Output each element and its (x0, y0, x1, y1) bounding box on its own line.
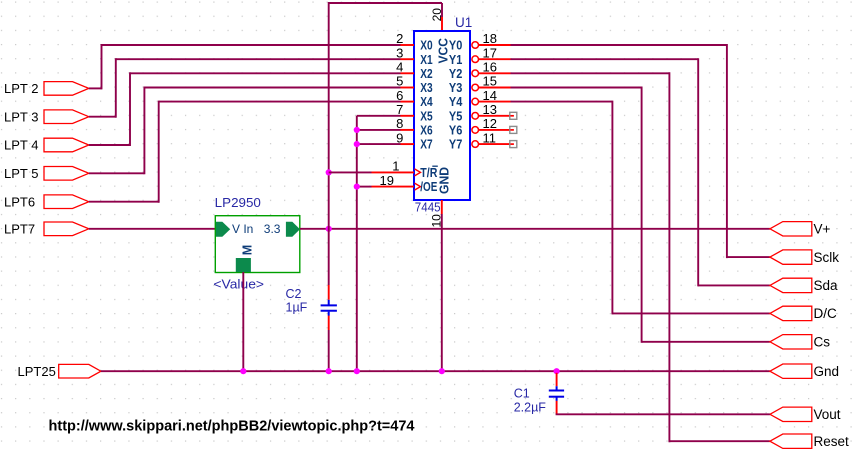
junction 3.3V rail / C2 (326, 226, 332, 232)
wire 3.3V rail (300, 228, 770, 230)
svg-text:/OE: /OE (420, 179, 437, 194)
pin number 11 (483, 130, 497, 145)
junction pin10 gnd (439, 368, 445, 374)
svg-text:18: 18 (483, 31, 497, 46)
pin 15 lead (479, 87, 511, 89)
pin number 8 (396, 116, 403, 131)
connector D/C (770, 306, 837, 321)
wire regulator ground to rail (242, 272, 244, 371)
svg-text:LPT25: LPT25 (18, 364, 56, 379)
pin number 3 (396, 45, 403, 60)
connector V+ (770, 222, 831, 237)
pin label Y4 (449, 94, 463, 109)
pin number 7 (396, 102, 403, 117)
connector Reset (770, 434, 849, 449)
svg-text:3: 3 (396, 45, 403, 60)
junction regulator gnd (240, 368, 246, 374)
svg-text:11: 11 (483, 130, 497, 145)
wire Y4 to D/C (511, 101, 770, 315)
pin label X7 (420, 137, 432, 152)
pin label X1 (420, 52, 432, 67)
svg-text:C1: C1 (514, 386, 530, 400)
pin label Y7 (449, 137, 462, 152)
capacitor C2 label (286, 287, 302, 301)
junction pin19 (354, 184, 360, 190)
junction pin9 (354, 141, 360, 147)
junction pin8 (354, 127, 360, 133)
pin label X0 (420, 38, 432, 53)
no-connect marker pin 12 (510, 126, 517, 133)
svg-text:Sda: Sda (814, 278, 839, 293)
wire pin1 T/R (329, 171, 372, 173)
svg-text:LPT 4: LPT 4 (4, 138, 38, 153)
pin label Y2 (449, 66, 462, 81)
svg-text:LPT 3: LPT 3 (4, 109, 38, 124)
pin number 20 (430, 8, 444, 22)
pin 6 lead (401, 101, 415, 103)
svg-text:X2: X2 (420, 66, 432, 81)
svg-text:X4: X4 (420, 94, 433, 109)
connector LPT7 (4, 221, 89, 236)
svg-text:1µF: 1µF (286, 301, 308, 315)
pin 12 bubble (472, 127, 479, 134)
pin number 4 (396, 60, 403, 75)
pin 8 lead (401, 129, 415, 131)
svg-text:Y2: Y2 (449, 66, 462, 81)
capacitor C2 plates (321, 300, 337, 316)
svg-text:4: 4 (396, 60, 403, 75)
pin 19 lead /OE (372, 183, 421, 190)
capacitor C1 plates (549, 386, 564, 401)
junction C1 gnd (554, 368, 560, 374)
svg-text:Y6: Y6 (449, 123, 462, 138)
pin 15 bubble (472, 84, 479, 91)
svg-text:V In: V In (232, 222, 253, 236)
pin 17 bubble (472, 56, 479, 63)
svg-text:16: 16 (483, 60, 497, 75)
svg-text:V+: V+ (814, 222, 831, 237)
pin 17 lead (479, 58, 511, 60)
pin label T/R (420, 165, 438, 180)
IC U1 7445 decoder body (414, 31, 470, 200)
svg-text:Y1: Y1 (449, 52, 462, 67)
pin number 12 (483, 116, 497, 131)
svg-text:1: 1 (392, 159, 399, 174)
pin 11 lead (479, 143, 511, 145)
svg-text:19: 19 (380, 173, 394, 188)
pin label X3 (420, 80, 432, 95)
pin label X4 (420, 94, 433, 109)
svg-text:X0: X0 (420, 38, 432, 53)
chip label GND (436, 167, 451, 194)
pin label Y1 (449, 52, 462, 67)
capacitor C1 label (514, 386, 530, 400)
junction VCC / pin1 (326, 169, 332, 175)
svg-text:15: 15 (483, 74, 497, 89)
connector Cs (770, 335, 830, 350)
svg-text:Sclk: Sclk (814, 250, 840, 265)
svg-text:D/C: D/C (814, 306, 838, 321)
svg-text:Vout: Vout (814, 407, 841, 422)
pin 18 bubble (472, 42, 479, 49)
connector LPT5 (4, 166, 89, 181)
svg-text:12: 12 (483, 116, 497, 131)
pin label X6 (420, 123, 432, 138)
pin number 2 (396, 31, 403, 46)
pin number 13 (483, 102, 497, 117)
svg-text:C2: C2 (286, 287, 302, 301)
pin number 6 (396, 88, 403, 103)
pin label X2 (420, 66, 432, 81)
pin label Y6 (449, 123, 462, 138)
pin 3 lead (401, 58, 415, 60)
pin 13 lead (479, 115, 511, 117)
wire pin7 X5 (357, 115, 401, 117)
svg-text:6: 6 (396, 88, 403, 103)
pin 7 lead (401, 115, 415, 117)
wire pin8 X6 (357, 129, 401, 131)
pin number 19 (380, 173, 394, 188)
pin 20 lead (441, 17, 443, 31)
wire LPT2 to X0 pin (89, 44, 401, 89)
svg-text:9: 9 (396, 130, 403, 145)
pin 16 bubble (472, 70, 479, 77)
wire VCC pin20 net (329, 2, 442, 285)
connector Sda (770, 278, 838, 293)
svg-text:http://www.skippari.net/phpBB2: http://www.skippari.net/phpBB2/viewtopic… (49, 418, 416, 435)
wire pin10 to ground rail (441, 214, 443, 371)
wire LPT5 to X3 pin (89, 87, 401, 175)
chip reference U1 (455, 15, 472, 30)
svg-text:17: 17 (483, 45, 497, 60)
pin number 15 (483, 74, 497, 89)
wire pin19 OE (357, 186, 372, 188)
svg-text:13: 13 (483, 102, 497, 117)
pin number 5 (396, 74, 403, 89)
wire pin9 X7 (357, 143, 401, 145)
pin 16 lead (479, 72, 511, 74)
svg-text:3.3: 3.3 (264, 222, 281, 236)
wire C2 to ground rail (328, 330, 330, 371)
pin 12 lead (479, 129, 511, 131)
pin number 14 (483, 88, 497, 103)
no-connect marker pin 11 (510, 141, 517, 148)
wire Y1 to Sda (511, 58, 770, 286)
capacitor C2 leads (328, 285, 330, 330)
wire Y0 to Sclk (511, 44, 770, 258)
url caption (49, 418, 416, 435)
regulator LP2950 outline (215, 216, 299, 273)
pin 5 lead (401, 87, 415, 89)
svg-text:7: 7 (396, 102, 403, 117)
junction OE tie gnd (354, 368, 360, 374)
svg-text:14: 14 (483, 88, 497, 103)
pin 9 lead (401, 143, 415, 145)
pin number 16 (483, 60, 497, 75)
pin label Y0 (449, 38, 462, 53)
pin 2 lead (401, 44, 415, 46)
pin 10 lead (441, 200, 443, 214)
connector Sclk (770, 250, 839, 265)
pin label /OE (420, 179, 437, 194)
pin label Y3 (449, 80, 462, 95)
svg-text:Y5: Y5 (449, 108, 462, 123)
svg-text:2.2µF: 2.2µF (514, 401, 547, 415)
pin number 17 (483, 45, 497, 60)
wire X5 X6 X7 OE tie to ground (356, 116, 358, 371)
pin label Y5 (449, 108, 462, 123)
wire ground rail LPT25 to Gnd (101, 370, 770, 372)
svg-text:Y3: Y3 (449, 80, 462, 95)
svg-text:20: 20 (430, 8, 444, 22)
no-connect marker pin 13 (510, 112, 517, 119)
pin label X5 (420, 108, 432, 123)
regulator label LP2950 (215, 195, 261, 210)
svg-text:LPT 5: LPT 5 (4, 166, 38, 181)
svg-text:Y0: Y0 (449, 38, 462, 53)
svg-text:M: M (241, 245, 255, 255)
wire Y2 to Reset (511, 72, 770, 442)
svg-text:LP2950: LP2950 (215, 195, 261, 210)
wire Y3 to Cs (511, 87, 770, 343)
wire LPT4 to X2 pin (89, 72, 401, 146)
svg-text:GND: GND (436, 167, 451, 194)
connector LPT3 (4, 109, 89, 124)
capacitor C1 value 2.2uF (514, 401, 547, 415)
wire C1 to Vout (556, 413, 770, 416)
svg-text:Gnd: Gnd (814, 364, 840, 379)
wire LPT3 to X1 pin (89, 58, 401, 117)
svg-text:7445: 7445 (415, 199, 441, 214)
wire LPT6 to X4 pin (89, 101, 401, 203)
regulator output pin 3.3 (264, 222, 300, 237)
regulator input pin Vin (216, 222, 253, 237)
pin 1 lead T/R (372, 169, 421, 176)
connector Vout (770, 407, 841, 422)
regulator ground pin M (236, 245, 255, 272)
pin 13 bubble (472, 113, 479, 120)
pin 18 lead (479, 44, 511, 46)
chip label VCC (435, 37, 450, 63)
svg-text:T/R: T/R (420, 165, 438, 180)
connector LPT2 (4, 81, 89, 96)
svg-text:X6: X6 (420, 123, 432, 138)
pin number 10 (430, 214, 444, 228)
svg-text:U1: U1 (455, 15, 472, 30)
svg-text:<Value>: <Value> (213, 277, 264, 292)
pin 4 lead (401, 72, 415, 74)
pin number 9 (396, 130, 403, 145)
svg-text:LPT6: LPT6 (4, 194, 35, 209)
connector LPT4 (4, 138, 89, 153)
svg-text:LPT7: LPT7 (4, 221, 35, 236)
svg-text:Cs: Cs (814, 335, 831, 350)
svg-text:Reset: Reset (814, 434, 850, 449)
svg-text:X1: X1 (420, 52, 432, 67)
connector LPT25 (18, 364, 101, 379)
pin 11 bubble (472, 141, 479, 148)
svg-text:X5: X5 (420, 108, 432, 123)
wire LPT7 to regulator Vin (89, 228, 216, 230)
capacitor C2 value 1uF (286, 301, 308, 315)
regulator value label (213, 277, 264, 292)
pin number 18 (483, 31, 497, 46)
pin 14 lead (479, 101, 511, 103)
svg-text:VCC: VCC (435, 37, 450, 63)
svg-text:Y7: Y7 (449, 137, 462, 152)
pin number 1 (392, 159, 399, 174)
connector LPT6 (4, 194, 89, 209)
svg-text:X3: X3 (420, 80, 432, 95)
svg-text:2: 2 (396, 31, 403, 46)
chip value 7445 (415, 199, 441, 214)
svg-text:5: 5 (396, 74, 403, 89)
capacitor C1 leads (556, 373, 558, 414)
connector Gnd (770, 364, 839, 379)
pin 14 bubble (472, 98, 479, 105)
svg-text:X7: X7 (420, 137, 432, 152)
junction C2 gnd (326, 368, 332, 374)
svg-text:8: 8 (396, 116, 403, 131)
svg-text:Y4: Y4 (449, 94, 463, 109)
svg-text:LPT 2: LPT 2 (4, 81, 38, 96)
